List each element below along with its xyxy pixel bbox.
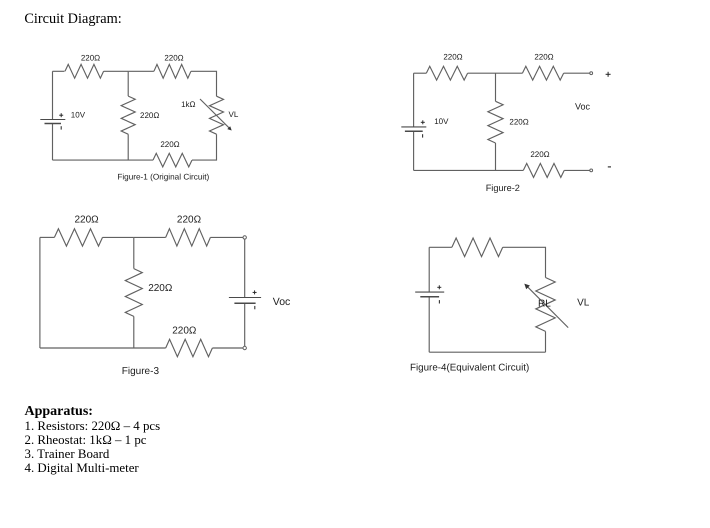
resistor R3 220ohm (Fig1 middle vertical) xyxy=(121,96,135,134)
svg-text:220Ω: 220Ω xyxy=(177,215,202,226)
battery positive plate (long) xyxy=(415,291,444,293)
wire Fig3 top-left corner to R9 xyxy=(40,236,55,238)
svg-text:VL: VL xyxy=(577,298,590,309)
battery plus mark xyxy=(253,291,257,293)
wire Fig2 left side lower xyxy=(413,131,415,170)
wire R2 to top-right corner down to rheostat xyxy=(191,71,217,96)
svg-text:RL: RL xyxy=(538,299,551,310)
open terminal minus (Fig2) xyxy=(590,169,593,172)
svg-text:220Ω: 220Ω xyxy=(172,326,197,337)
battery negative plate (short) xyxy=(420,296,439,298)
node B junction wire down xyxy=(495,73,497,101)
wire node B to R6 xyxy=(496,72,523,74)
wire R8 to terminal minus xyxy=(564,169,590,171)
svg-text:1kΩ: 1kΩ xyxy=(181,100,195,109)
svg-text:10V: 10V xyxy=(71,110,86,119)
resistor R1 220ohm (Fig1 top-left) xyxy=(65,64,104,78)
wire Fig2 bottom-left xyxy=(414,169,524,171)
resistor R12 220ohm (Fig3 bottom) xyxy=(166,339,213,356)
battery plus mark xyxy=(59,114,63,116)
wire Fig1 left side lower xyxy=(52,124,54,161)
battery negative plate (short) xyxy=(234,302,255,304)
wire Fig1 left side upper xyxy=(52,71,54,119)
wire Fig3 right side upper xyxy=(244,239,246,297)
wire Fig3 left side xyxy=(39,237,41,348)
title: Circuit Diagram: xyxy=(24,12,121,27)
svg-text:220Ω: 220Ω xyxy=(164,54,183,63)
wire rheostat to bottom-right corner xyxy=(192,134,217,160)
wire Fig1 top-left corner to R1 xyxy=(53,70,65,72)
wire Fig4 left side lower xyxy=(428,297,430,353)
resistor R13 (Fig4 top, unlabeled) xyxy=(452,238,503,257)
rheostat RL zigzag (Fig4 right) xyxy=(536,278,555,332)
battery positive plate (long) xyxy=(40,119,65,121)
wire R12 to bottom-right terminal xyxy=(212,347,243,349)
wire R6 to terminal plus xyxy=(564,72,590,74)
resistor R7 220ohm (Fig2 middle vertical) xyxy=(488,101,503,143)
battery minus tick xyxy=(254,306,256,309)
resistor R8 220ohm (Fig2 bottom) xyxy=(523,163,564,177)
svg-text:220Ω: 220Ω xyxy=(534,53,553,62)
wire Fig3 right side lower xyxy=(244,303,246,346)
battery negative plate (short) xyxy=(405,130,423,132)
open terminal Fig3 top-right xyxy=(243,236,246,239)
svg-text:Figure-4(Equivalent Circuit): Figure-4(Equivalent Circuit) xyxy=(410,363,529,374)
apparatus heading and list xyxy=(25,404,161,475)
svg-text:10V: 10V xyxy=(434,117,449,126)
wire R9 to node C xyxy=(103,236,134,238)
wire Fig4 bottom xyxy=(429,351,545,353)
wire R10 to top-right terminal xyxy=(210,236,243,238)
wire Fig3 bottom-left xyxy=(40,347,166,349)
wire R5 to node B xyxy=(468,72,496,74)
wire Fig2 left side upper xyxy=(413,73,415,127)
wire rheostat RL to bottom-right corner xyxy=(545,331,547,352)
svg-text:220Ω: 220Ω xyxy=(443,53,462,62)
wire node A to R2 xyxy=(128,70,154,72)
rheostat RL arrow xyxy=(527,287,568,328)
wire R13 to top-right corner down to rheostat RL xyxy=(503,247,546,277)
wire R3 to bottom wire xyxy=(127,134,129,160)
battery minus tick xyxy=(422,134,424,137)
svg-text:220Ω: 220Ω xyxy=(160,140,179,149)
label + terminal xyxy=(606,73,611,75)
svg-text:Voc: Voc xyxy=(273,296,291,308)
battery negative plate (short) xyxy=(45,123,62,125)
svg-text:220Ω: 220Ω xyxy=(140,111,159,120)
label - terminal xyxy=(608,166,611,168)
node A junction wire down xyxy=(127,71,129,96)
wire Fig4 top-left corner to R13 xyxy=(429,246,452,248)
battery minus tick xyxy=(438,300,440,303)
resistor R6 220ohm (Fig2 top-right) xyxy=(522,66,563,80)
svg-text:Figure-1 (Original Circuit): Figure-1 (Original Circuit) xyxy=(117,172,209,181)
battery plus mark xyxy=(421,121,425,123)
resistor R4 220ohm (Fig1 bottom) xyxy=(153,153,192,167)
svg-text:220Ω: 220Ω xyxy=(530,150,549,159)
svg-text:220Ω: 220Ω xyxy=(81,54,100,63)
svg-text:Figure-2: Figure-2 xyxy=(486,183,520,193)
wire Fig4 left side upper xyxy=(428,247,430,292)
rheostat VL arrow xyxy=(200,99,230,129)
svg-text:VL: VL xyxy=(229,110,239,119)
resistor R9 220ohm (Fig3 top-left) xyxy=(54,229,102,246)
svg-text:220Ω: 220Ω xyxy=(75,215,100,226)
svg-text:Figure-3: Figure-3 xyxy=(122,366,160,377)
node C junction wire down xyxy=(133,237,135,268)
wire R1 to node A xyxy=(104,70,129,72)
wire R11 to bottom wire xyxy=(133,316,135,348)
svg-text:Voc: Voc xyxy=(575,102,591,112)
wire bottom-left Fig1 xyxy=(53,159,154,161)
svg-text:220Ω: 220Ω xyxy=(148,283,173,294)
resistor R11 220ohm (Fig3 middle vertical) xyxy=(125,269,142,317)
battery positive plate (long) xyxy=(401,126,426,128)
resistor R2 220ohm (Fig1 top-right) xyxy=(154,64,191,78)
resistor R5 220ohm (Fig2 top-left) xyxy=(426,66,467,80)
resistor R10 220ohm (Fig3 top-right) xyxy=(166,229,211,246)
battery plus mark xyxy=(437,286,441,288)
open terminal plus (Fig2) xyxy=(590,72,593,75)
wire Fig2 top-left corner to R5 xyxy=(414,72,427,74)
wire node C to R10 xyxy=(134,236,166,238)
open terminal Fig3 bottom-right xyxy=(243,346,246,349)
battery positive plate (long) xyxy=(229,297,261,299)
rheostat VL 1kohm zigzag (Fig1 right) xyxy=(210,96,224,134)
battery minus tick xyxy=(60,126,62,129)
svg-text:220Ω: 220Ω xyxy=(509,118,528,127)
wire R7 to bottom wire xyxy=(495,143,497,170)
